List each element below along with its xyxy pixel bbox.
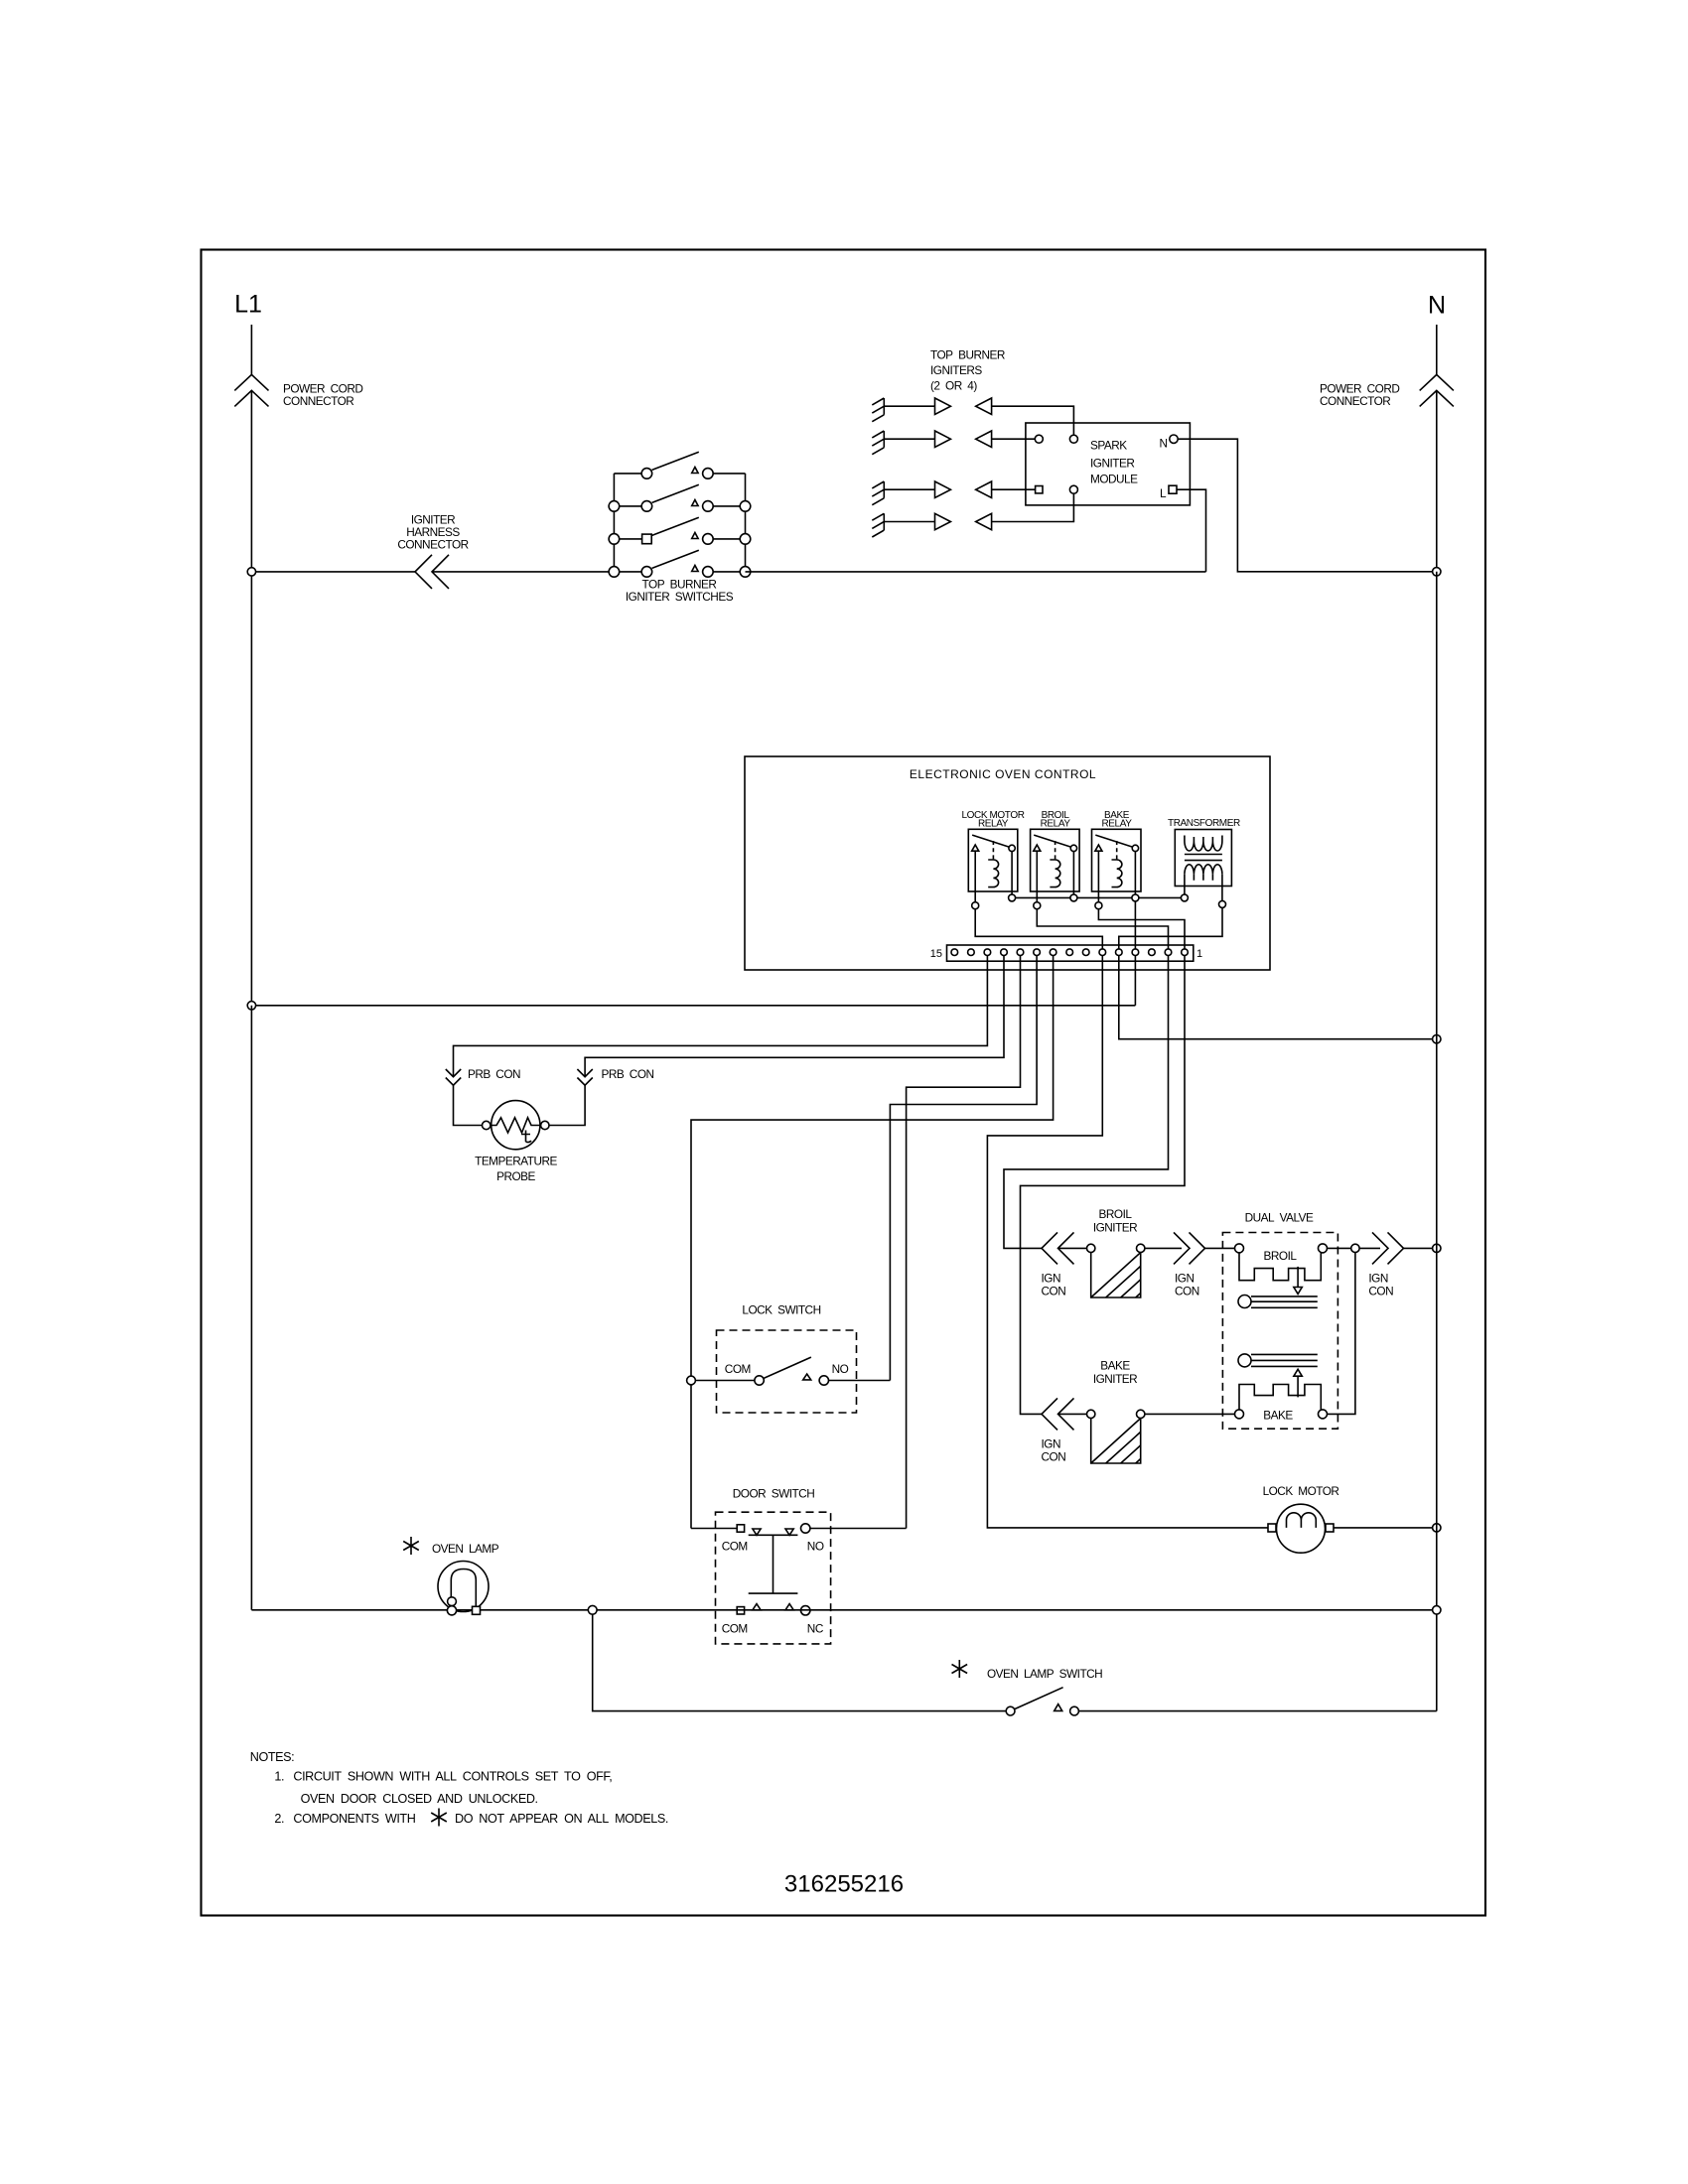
PRB CON connector left [446,1069,461,1085]
igniter electrode row 1 [872,398,1073,435]
svg-text:RELAY: RELAY [1101,819,1132,830]
dual valve V1 [1222,1233,1337,1430]
wire strip t11 to neutral [1119,955,1437,1039]
svg-text:TEMPERATURE: TEMPERATURE [475,1155,557,1168]
lock switch S1 [696,1330,891,1413]
wire strip t5 to door switch NO [907,955,1021,1529]
igniter electrode row 4 [872,493,1073,537]
wire lock relay coil to strip t10 [975,909,1102,949]
top burner igniter switches right bus [745,474,747,572]
node junction bus-N bottom [1433,1606,1441,1614]
svg-text:LOCK SWITCH: LOCK SWITCH [742,1303,820,1317]
temperature probe RT1 [483,1101,550,1150]
lock motor M1 [1268,1504,1437,1553]
oven lamp switch asterisk [952,1660,968,1678]
power cord connector right [1420,374,1454,406]
power cord connector left [234,374,268,406]
svg-text:NC: NC [807,1621,824,1635]
wire transformer to strip t11 [1119,907,1222,949]
svg-text:TOP BURNER: TOP BURNER [930,348,1005,362]
svg-text:IGNITER: IGNITER [1093,1221,1137,1235]
svg-text:DOOR SWITCH: DOOR SWITCH [733,1487,814,1501]
node junction N-bus [1433,568,1441,576]
svg-text:MODULE: MODULE [1090,473,1138,486]
svg-text:1. CIRCUIT SHOWN WITH ALL: 1. CIRCUIT SHOWN WITH ALL CONTROLS SET T… [274,1770,612,1784]
node junction lamp switch tap [588,1605,597,1614]
svg-text:DO NOT APPEAR ON ALL MODE: DO NOT APPEAR ON ALL MODELS. [455,1812,668,1826]
switch SW2 row [609,484,751,511]
wire N vertical [1436,325,1438,572]
oven lamp switch S3 [1006,1688,1437,1715]
relay output bus [1012,896,1185,898]
bottom bus wire [251,1006,1436,1610]
svg-text:15: 15 [930,948,942,960]
bake igniter E2 [1058,1410,1235,1463]
svg-text:NO: NO [832,1362,849,1376]
broil igniter E1 [1058,1244,1183,1297]
node junction valve-N [1433,1244,1441,1252]
svg-text:CONNECTOR: CONNECTOR [1320,394,1390,408]
node junction L1-bus [247,568,255,576]
svg-text:CONNECTOR: CONNECTOR [283,394,353,408]
svg-text:1: 1 [1196,948,1202,960]
node junction t11-N [1433,1035,1441,1043]
terminal strip P1 [947,945,1194,961]
wire valve to neutral [1404,1247,1437,1249]
wire strip t14 to broil igniter [1004,955,1169,1248]
wire PRB left to probe [454,1085,483,1125]
wire strip t6 to lock switch NO [890,955,1037,1381]
svg-text:BROIL: BROIL [1099,1207,1133,1221]
node bus terminals [1009,894,1016,901]
svg-text:CON: CON [1042,1450,1066,1464]
wire strip t15 to bake igniter [1021,955,1186,1414]
node junction valve outputs [1351,1244,1359,1252]
svg-text:RELAY: RELAY [1041,819,1071,830]
spark module pin terminals [1035,435,1043,443]
lock motor relay K1 [968,829,1018,901]
valve IGN CON connector right [1372,1232,1404,1264]
note 2 asterisk [431,1809,447,1827]
PRB CON connector right [577,1069,592,1085]
igniter electrode row 2 [872,431,1035,455]
svg-text:BAKE: BAKE [1100,1359,1130,1373]
igniter electrode row 3 [872,481,1035,505]
door switch S2 [691,1512,907,1644]
svg-text:RELAY: RELAY [978,819,1009,830]
broil igniter IGN CON connector right [1174,1232,1205,1264]
bake relay K3 [1092,829,1142,949]
wire strip t3 to left probe connector [454,955,988,1077]
wire strip t7 to switch commons [691,955,1054,1529]
switch SW3 row [609,517,751,544]
svg-text:SPARK: SPARK [1090,439,1127,453]
svg-text:CON: CON [1368,1285,1393,1298]
wire broil relay coil to strip t14 [1037,909,1168,949]
igniter harness connector [415,555,449,589]
wire L1 vertical [250,325,252,1006]
oven lamp DS1 [438,1562,489,1615]
svg-text:COM: COM [722,1539,748,1553]
wire spark module N to neutral [1178,439,1437,572]
svg-text:L1: L1 [234,291,262,319]
node junction L1-bus2 [247,1002,255,1010]
svg-text:IGN: IGN [1175,1272,1194,1286]
svg-text:L: L [1160,486,1167,500]
svg-text:CON: CON [1042,1285,1066,1298]
wire lamp switch loop [593,1614,1006,1710]
svg-text:(2 OR 4): (2 OR 4) [930,379,977,393]
border frame [202,250,1486,1916]
spark igniter module U1 [1026,423,1191,505]
svg-text:IGN: IGN [1042,1437,1060,1451]
svg-text:PROBE: PROBE [496,1169,535,1183]
terminal strip pins 15..1 [951,949,1188,956]
oven lamp asterisk [403,1537,419,1555]
svg-text:ELECTRONIC OVEN CONTROL: ELECTRONIC OVEN CONTROL [910,767,1096,781]
svg-text:OVEN LAMP: OVEN LAMP [432,1542,499,1556]
wire strip t10 to lock motor [987,955,1267,1528]
svg-text:IGN: IGN [1042,1272,1060,1286]
svg-text:BROIL: BROIL [1264,1249,1298,1263]
wire strip t12 to L1 bus [1134,955,1136,1006]
svg-text:N: N [1159,437,1167,451]
svg-text:PRB CON: PRB CON [468,1067,520,1081]
switch SW4 row [609,550,751,577]
top burner igniter switches left bus [613,474,615,572]
switch SW1 row [614,452,745,478]
wire bus switches to spark module L drop [746,571,1206,573]
node junction lock motor-N [1433,1524,1441,1532]
bake igniter IGN CON connector [1042,1398,1074,1430]
svg-text:OVEN LAMP SWITCH: OVEN LAMP SWITCH [987,1667,1102,1681]
wire valve broil out [1328,1247,1381,1249]
transformer T1 [1175,830,1231,901]
electronic oven control box [745,756,1270,970]
svg-text:COM: COM [725,1362,751,1376]
broil relay K2 [1031,829,1080,901]
svg-text:COM: COM [722,1621,748,1635]
svg-text:CONNECTOR: CONNECTOR [397,538,468,552]
svg-text:IGNITER: IGNITER [1090,457,1134,471]
svg-text:LOCK MOTOR: LOCK MOTOR [1263,1484,1339,1498]
svg-text:DUAL VALVE: DUAL VALVE [1245,1211,1314,1225]
svg-text:NO: NO [807,1539,824,1553]
svg-text:IGNITERS: IGNITERS [930,363,982,377]
svg-text:2. COMPONENTS WITH: 2. COMPONENTS WITH [274,1812,415,1826]
svg-text:NOTES:: NOTES: [250,1750,294,1764]
wire L1 bus horizontal [251,1005,1135,1007]
svg-text:PRB CON: PRB CON [602,1067,654,1081]
wire bake relay coil to strip t15 [1098,909,1185,949]
wire strip t4 to right probe connector [585,955,1004,1077]
svg-text:316255216: 316255216 [784,1871,904,1898]
wire valve bake out to junction [1328,1253,1355,1415]
svg-text:IGNITER SWITCHES: IGNITER SWITCHES [626,590,734,604]
node junction lock switch COM [687,1376,696,1385]
svg-text:IGNITER: IGNITER [1093,1372,1137,1386]
svg-text:TRANSFORMER: TRANSFORMER [1168,818,1240,829]
wire bus to switch block [432,571,641,573]
wire PRB right to probe [549,1085,585,1125]
svg-text:BAKE: BAKE [1263,1409,1293,1423]
wire L1 bus [251,571,415,573]
wire to dual valve broil [1205,1247,1235,1249]
svg-text:CON: CON [1175,1285,1199,1298]
svg-text:N: N [1428,292,1446,320]
svg-text:OVEN DOOR CLOSED AND UNLOC: OVEN DOOR CLOSED AND UNLOCKED. [301,1792,538,1806]
wire spark module L to bus [1177,489,1206,572]
svg-text:IGN: IGN [1368,1272,1387,1286]
broil igniter IGN CON connector left [1042,1232,1074,1264]
wire N vertical lower [1436,572,1438,1711]
